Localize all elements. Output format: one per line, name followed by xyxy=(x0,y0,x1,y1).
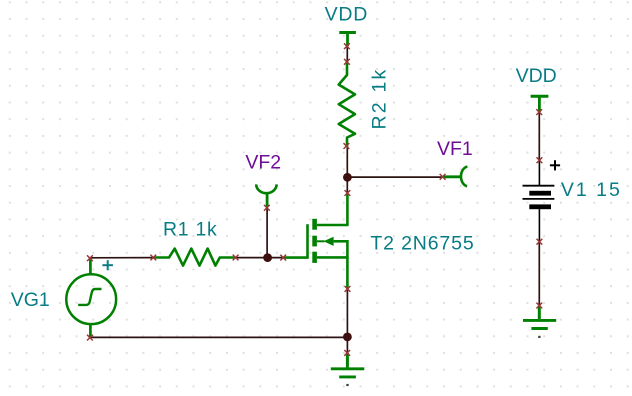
svg-text:VF2: VF2 xyxy=(245,151,281,173)
svg-text:R2 1k: R2 1k xyxy=(369,68,391,130)
plus sign battery xyxy=(550,160,560,170)
wire VG1 top to R1 xyxy=(90,257,153,259)
voltmeter probe VF2 xyxy=(256,184,276,207)
wire VG1 bottom to bottom node xyxy=(90,336,348,338)
generator VG1 xyxy=(66,258,116,337)
wire VDD right to battery xyxy=(538,112,540,160)
pin x R2 top xyxy=(344,59,350,65)
wire R2 bottom to drain node xyxy=(346,146,348,177)
pin x T2 drain xyxy=(345,190,351,196)
pin x VG1 bottom xyxy=(87,335,93,341)
pin x battery plus xyxy=(537,157,543,163)
ground right xyxy=(523,306,556,337)
pin x ground right xyxy=(536,303,542,309)
resistor R2 xyxy=(339,62,355,146)
wire VF2 to gate node xyxy=(266,208,268,258)
svg-text:R1 1k: R1 1k xyxy=(163,218,217,240)
ground center xyxy=(331,353,365,385)
pin x VDD top xyxy=(344,43,350,49)
svg-text:VDD: VDD xyxy=(325,3,369,25)
node C bottom node xyxy=(343,333,352,342)
svg-text:VF1: VF1 xyxy=(437,138,473,160)
pin x ground center xyxy=(344,350,350,356)
wire R1 to gate node to T2 gate pin xyxy=(236,257,284,259)
wire VDD top to R2 xyxy=(346,46,348,62)
wire T2 source to bottom node and ground xyxy=(346,289,348,353)
svg-text:V1 15: V1 15 xyxy=(561,179,622,201)
pin x R2 bottom xyxy=(344,143,350,149)
svg-text:VDD: VDD xyxy=(516,65,557,87)
svg-text:VG1: VG1 xyxy=(11,289,50,311)
voltmeter probe VF1 xyxy=(443,167,467,187)
pin x VDD right xyxy=(536,109,542,115)
pin x VF1 xyxy=(440,174,446,180)
resistor R1 xyxy=(154,249,235,266)
wire drain node to T2 drain pin xyxy=(346,177,348,193)
wire drain node to VF1 xyxy=(347,176,442,178)
pin x VG1 top xyxy=(87,255,93,261)
pin x R1 left xyxy=(150,255,156,261)
pin x T2 source xyxy=(345,286,351,292)
svg-text:T2 2N6755: T2 2N6755 xyxy=(370,233,474,255)
power VDD right symbol xyxy=(531,96,549,112)
pin x R1 right xyxy=(233,255,239,261)
transistor T2 MOSFET xyxy=(283,194,348,289)
node A drain node xyxy=(343,173,352,182)
pin x battery minus xyxy=(537,239,543,245)
pin x T2 gate xyxy=(280,255,286,261)
battery V1 xyxy=(523,160,555,242)
node B gate node xyxy=(263,253,272,262)
power VDD top symbol xyxy=(339,33,356,47)
wire battery to ground right xyxy=(538,242,540,306)
plus sign VG1 xyxy=(102,260,113,270)
pin x VF2 xyxy=(264,205,270,211)
